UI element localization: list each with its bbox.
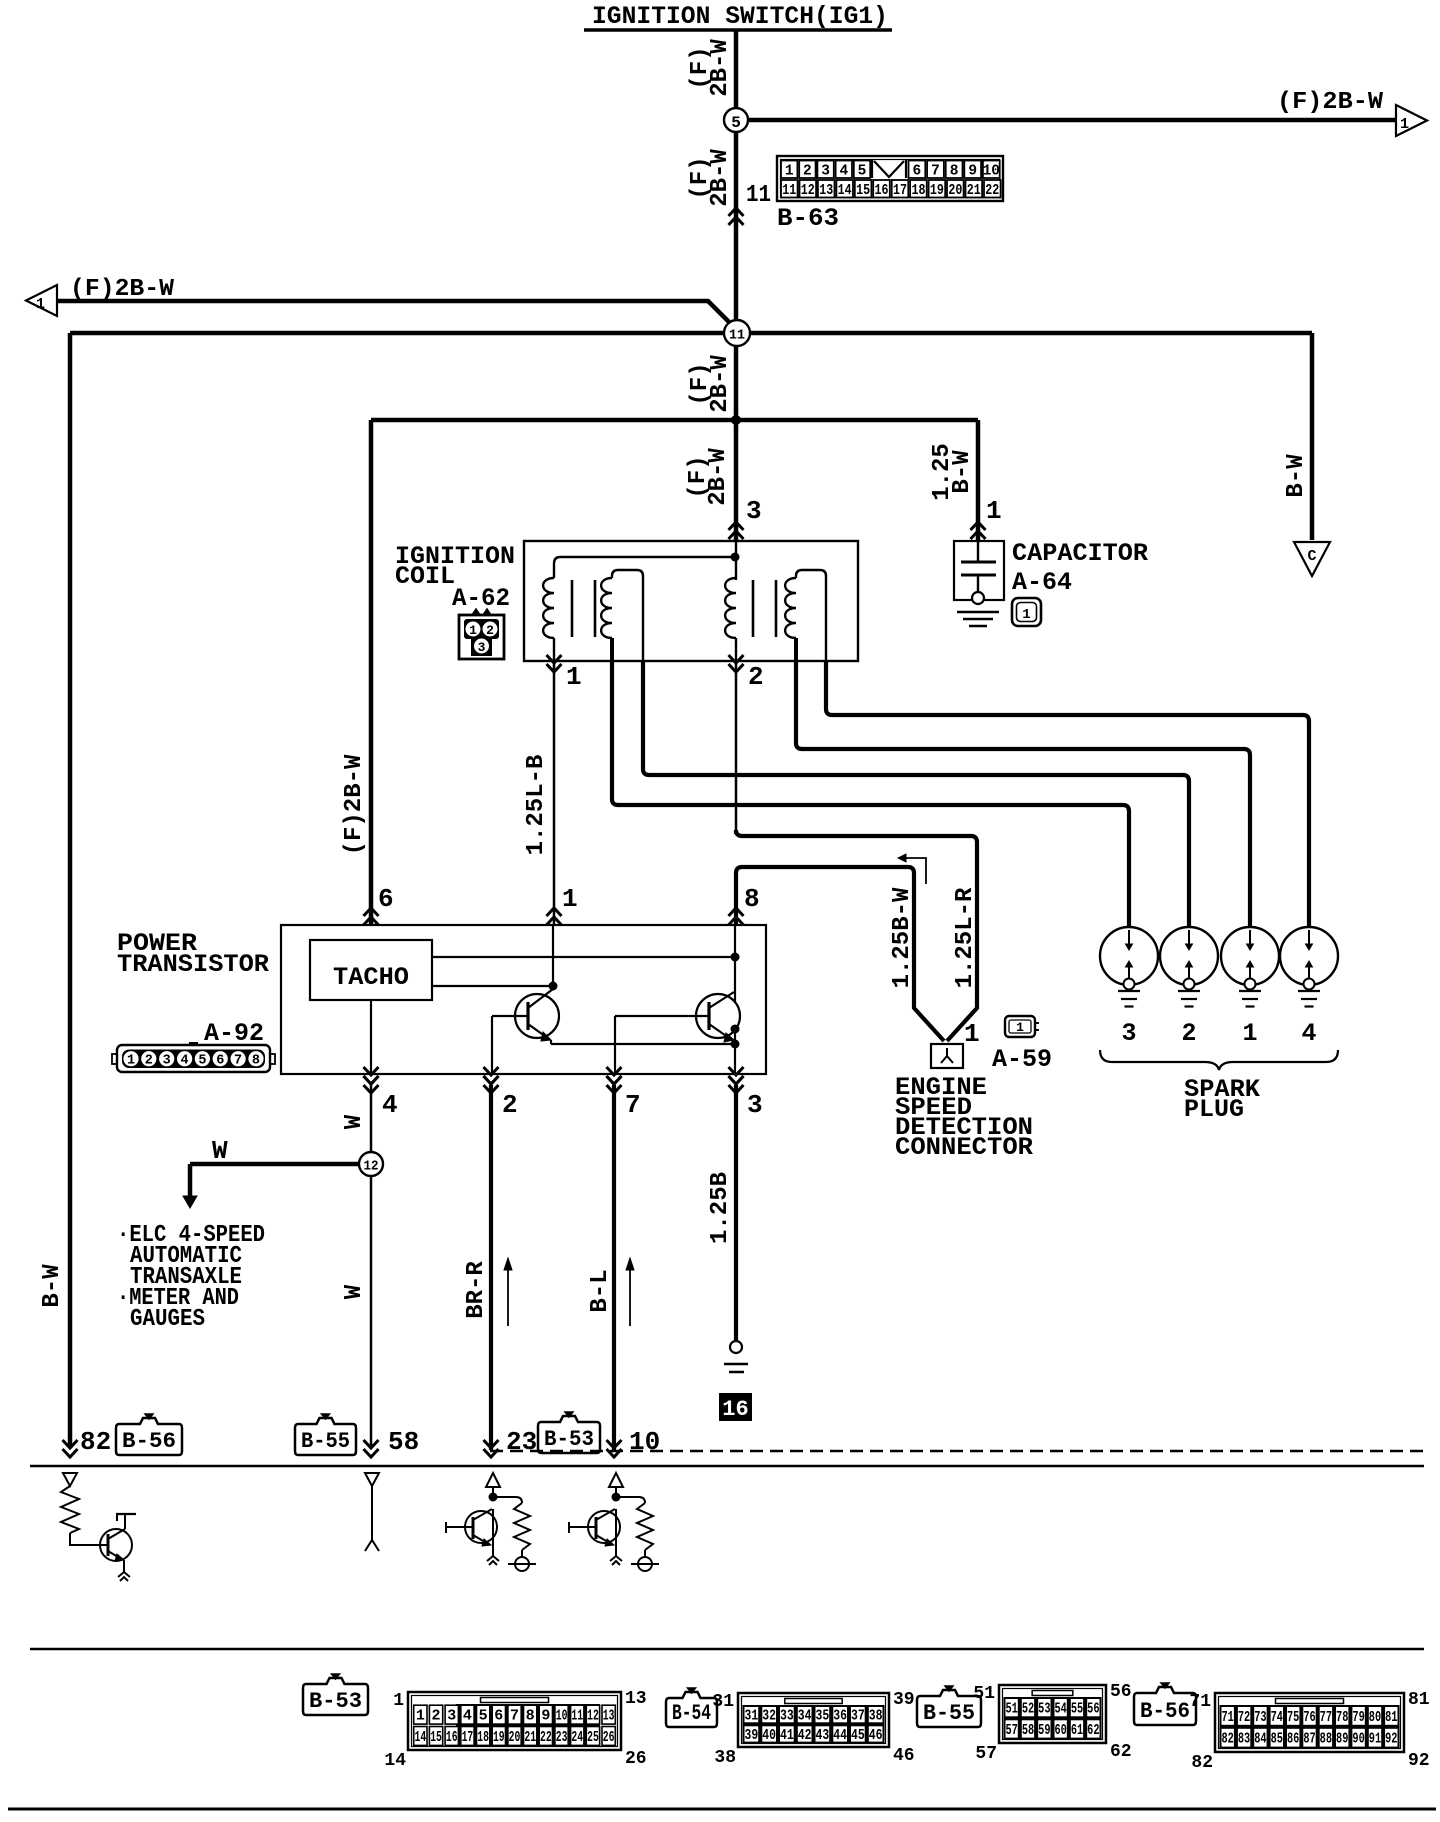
svg-text:16: 16: [446, 1730, 458, 1746]
svg-text:10: 10: [556, 1709, 568, 1725]
wire 2B-W horizontal junction to coil and capacitor branches: [371, 418, 978, 423]
label B-L: [587, 1269, 614, 1312]
internal wire pin 1 down: [552, 925, 554, 986]
svg-text:54: 54: [1055, 1702, 1068, 1718]
ground rail line: [30, 1465, 1424, 1468]
svg-text:A-64: A-64: [1012, 568, 1072, 597]
svg-text:21: 21: [967, 183, 981, 199]
wire Q1 emitter to pin3 net: [550, 1040, 552, 1044]
ground point 16 marker: [719, 1393, 752, 1422]
arrow out of power transistor pin 3: [729, 1076, 744, 1084]
svg-text:71: 71: [1189, 1692, 1211, 1712]
wire W node12 to terminal 58: [370, 1176, 373, 1448]
svg-text:19: 19: [493, 1730, 505, 1746]
svg-text:56: 56: [1087, 1702, 1099, 1718]
wire 2B-W node11 down to junction: [734, 346, 739, 420]
svg-text:1: 1: [562, 884, 578, 914]
wire coil secondary A left to spark plug 3: [612, 661, 1129, 932]
direction arrow near 1.25B-W: [898, 854, 926, 884]
svg-text:B-53: B-53: [544, 1427, 594, 1452]
svg-text:B-W: B-W: [1283, 454, 1310, 498]
svg-text:2: 2: [145, 1054, 153, 1069]
wire coil secondary B left to spark plug 1: [796, 661, 1250, 932]
svg-text:58: 58: [1022, 1723, 1034, 1739]
svg-text:5: 5: [198, 1054, 206, 1069]
svg-text:B-55: B-55: [301, 1429, 350, 1454]
label POWER TRANSISTOR: [117, 929, 269, 979]
svg-text:18: 18: [911, 183, 925, 199]
svg-text:8: 8: [744, 884, 760, 914]
svg-text:IGNITION SWITCH(IG1): IGNITION SWITCH(IG1): [592, 2, 888, 31]
svg-text:51: 51: [973, 1684, 995, 1704]
svg-text:79: 79: [1352, 1710, 1364, 1726]
arrow into power transistor pin 6: [364, 908, 379, 916]
label W lower: [341, 1284, 368, 1299]
connector B-54 16-pin: [738, 1693, 889, 1747]
ignition coil unit B primary winding: [725, 578, 736, 661]
svg-text:16: 16: [875, 183, 889, 199]
label SPARK PLUG: [1184, 1075, 1260, 1124]
svg-text:1: 1: [964, 1019, 980, 1049]
svg-text:89: 89: [1336, 1732, 1348, 1748]
connector icon 1 of A-64: [1012, 598, 1041, 626]
svg-text:83: 83: [1238, 1732, 1250, 1748]
spark plug 2: [1160, 927, 1218, 1007]
arrow at terminal 82: [63, 1449, 78, 1457]
node 12 splice: [359, 1152, 383, 1176]
svg-text:78: 78: [1336, 1710, 1348, 1726]
wire 2B-W node5 down to node 11 through connector B-63 pin 11: [734, 132, 739, 321]
connector tag B-55 bottom: [917, 1690, 981, 1727]
svg-text:21: 21: [524, 1730, 536, 1746]
arrow out of power transistor pin 4: [364, 1076, 379, 1084]
svg-text:1: 1: [127, 1054, 135, 1069]
svg-text:6: 6: [216, 1054, 224, 1069]
svg-text:3: 3: [163, 1054, 171, 1069]
svg-text:3: 3: [747, 1090, 763, 1120]
wire B-W horizontal bus through node 11: [70, 331, 1312, 336]
svg-text:CONNECTOR: CONNECTOR: [895, 1133, 1033, 1162]
svg-text:56: 56: [1110, 1682, 1132, 1702]
svg-text:5: 5: [731, 114, 741, 132]
svg-text:34: 34: [798, 1709, 812, 1725]
svg-text:6: 6: [378, 884, 394, 914]
svg-text:43: 43: [816, 1728, 830, 1744]
connector tag B-54 bottom: [666, 1692, 717, 1727]
svg-text:2B-W: 2B-W: [707, 355, 734, 413]
label ELC 4-SPEED AUTOMATIC TRANSAXLE / METER AND GAUGES: [117, 1222, 265, 1333]
arrow at terminal 58: [364, 1449, 379, 1457]
ignition coil unit A secondary winding: [601, 570, 643, 661]
wire B-W right vertical down to ground C: [1310, 333, 1315, 540]
svg-text:87: 87: [1303, 1732, 1315, 1748]
label 1.25B: [707, 1172, 734, 1244]
connector B-53 26-pin: [408, 1692, 621, 1750]
svg-text:46: 46: [893, 1746, 915, 1766]
svg-text:3: 3: [478, 640, 486, 655]
wire 2B-W down to ignition coil pin 3: [734, 420, 739, 540]
direction arrow B-L: [626, 1258, 634, 1326]
svg-text:W: W: [341, 1114, 368, 1129]
svg-text:23: 23: [556, 1730, 568, 1746]
svg-text:W: W: [341, 1284, 368, 1299]
bottom border line: [8, 1808, 1436, 1811]
internal wire TACHO to pin 3 net: [432, 956, 735, 958]
label W upper: [341, 1114, 368, 1129]
svg-text:22: 22: [985, 183, 999, 199]
svg-text:32: 32: [762, 1709, 776, 1725]
svg-text:7: 7: [625, 1090, 641, 1120]
connector tag B-56 bottom: [1134, 1687, 1196, 1725]
arrow into connector B-63: [729, 208, 744, 216]
pull resistor to ground circle: [616, 1497, 659, 1571]
svg-text:2B-W: 2B-W: [707, 149, 734, 207]
svg-text:12: 12: [364, 1160, 379, 1175]
label 1.25B-W: [889, 887, 916, 988]
coil internal feed wire: [554, 541, 736, 580]
svg-text:B-56: B-56: [1140, 1699, 1190, 1724]
terminal 58 load: open wire: [365, 1473, 379, 1551]
svg-text:PLUG: PLUG: [1184, 1095, 1244, 1124]
svg-text:13: 13: [625, 1689, 647, 1709]
svg-text:4: 4: [382, 1090, 398, 1120]
svg-text:TRANSISTOR: TRANSISTOR: [117, 950, 269, 979]
svg-text:2: 2: [748, 662, 764, 692]
connector A-92 8-pin: [112, 1042, 275, 1072]
junction dot: [612, 1493, 621, 1502]
svg-text:42: 42: [798, 1728, 812, 1744]
internal wire TACHO to pin 4: [370, 1000, 372, 1074]
svg-text:61: 61: [1071, 1723, 1084, 1739]
svg-text:85: 85: [1271, 1732, 1283, 1748]
svg-text:77: 77: [1320, 1710, 1332, 1726]
transistor Q1 of power transistor: [492, 989, 559, 1074]
arrow at terminal 10: [607, 1449, 622, 1457]
svg-text:12: 12: [801, 183, 815, 199]
junction dot pin1 net: [549, 982, 558, 991]
wire 2B-W from left arrow to node 11: [57, 301, 734, 327]
svg-text:31: 31: [712, 1692, 734, 1712]
label 1.25L-R: [952, 887, 979, 988]
junction dot emitter net: [731, 1040, 740, 1049]
svg-text:81: 81: [1408, 1690, 1430, 1710]
svg-text:A-59: A-59: [992, 1045, 1052, 1074]
label B-W right: [1283, 454, 1310, 498]
svg-text:25: 25: [587, 1730, 599, 1746]
svg-text:4: 4: [463, 1709, 472, 1725]
svg-text:B-56: B-56: [122, 1429, 176, 1454]
svg-text:7: 7: [510, 1709, 519, 1725]
svg-text:44: 44: [833, 1728, 847, 1744]
svg-text:14: 14: [384, 1751, 406, 1771]
wire B-L pin7 down to terminal 10: [612, 1085, 616, 1450]
svg-text:6: 6: [494, 1709, 503, 1725]
transistor Q2 of power transistor: [615, 992, 740, 1074]
terminal 82 load: resistor: [61, 1486, 100, 1545]
svg-text:92: 92: [1408, 1751, 1430, 1771]
svg-text:2: 2: [432, 1709, 441, 1725]
svg-text:6: 6: [913, 164, 922, 180]
svg-text:52: 52: [1022, 1702, 1034, 1718]
node IGNITION SWITCH (IG1) power source label: [584, 2, 892, 31]
svg-text:10: 10: [983, 164, 1000, 180]
junction dot: [489, 1493, 498, 1502]
internal wire pin 8 to pin 3: [734, 925, 736, 1074]
label B-W left: [39, 1264, 66, 1308]
transistor to ground: [569, 1509, 622, 1565]
svg-text:84: 84: [1254, 1732, 1267, 1748]
svg-text:BR-R: BR-R: [463, 1261, 490, 1319]
svg-text:55: 55: [1071, 1702, 1083, 1718]
svg-text:39: 39: [745, 1728, 759, 1744]
svg-text:51: 51: [1006, 1702, 1019, 1718]
svg-text:3: 3: [447, 1709, 456, 1725]
connector tag B-56 mid: [116, 1418, 182, 1455]
svg-text:3: 3: [746, 496, 762, 526]
svg-text:76: 76: [1303, 1710, 1315, 1726]
connector tag B-55 mid: [295, 1418, 356, 1455]
svg-text:59: 59: [1038, 1723, 1050, 1739]
label (F)2B-W above pin 6: [341, 754, 368, 855]
svg-text:17: 17: [893, 183, 907, 199]
svg-text:A-92: A-92: [204, 1019, 264, 1048]
svg-text:1: 1: [1022, 607, 1030, 623]
terminal 82 load: triangle: [63, 1473, 77, 1486]
svg-text:20: 20: [948, 183, 962, 199]
ground under capacitor: [957, 612, 999, 626]
power transistor unit box: [281, 925, 766, 1074]
svg-text:1: 1: [986, 496, 1002, 526]
junction dot inside coil: [731, 553, 740, 562]
svg-text:B-L: B-L: [587, 1269, 614, 1312]
svg-text:2B-W: 2B-W: [705, 448, 732, 506]
svg-text:31: 31: [745, 1709, 759, 1725]
svg-text:1: 1: [416, 1709, 425, 1725]
svg-text:38: 38: [714, 1748, 736, 1768]
arrow out of power transistor pin 2: [484, 1076, 499, 1084]
label (F)2B-W segment above B-63: [687, 149, 734, 207]
connector icon 1 of A-59: [1005, 1016, 1039, 1037]
ignition coil unit B core: [753, 580, 776, 637]
dashed harness line: [490, 1450, 1428, 1452]
label 1.25 B-W capacitor feed: [929, 443, 976, 501]
node 5 splice: [724, 108, 748, 132]
svg-text:1: 1: [1242, 1019, 1257, 1048]
svg-text:80: 80: [1369, 1710, 1381, 1726]
label ENGINE SPEED DETECTION CONNECTOR: [895, 1073, 1033, 1162]
svg-text:24: 24: [571, 1730, 583, 1746]
terminal 10 load: triangle up: [609, 1473, 623, 1494]
wire 1.25B-W power transistor pin 8 to engine speed connector: [736, 867, 944, 1041]
svg-text:35: 35: [816, 1709, 830, 1725]
connector B-55 12-pin: [999, 1685, 1106, 1743]
svg-text:1: 1: [36, 296, 45, 313]
wire 2B-W to right fuse arrow: [748, 118, 1396, 123]
svg-text:39: 39: [893, 1690, 915, 1710]
svg-text:1: 1: [1400, 116, 1409, 133]
svg-text:4: 4: [180, 1054, 188, 1069]
svg-text:10: 10: [629, 1427, 660, 1457]
svg-text:B-54: B-54: [672, 1701, 711, 1726]
svg-text:W: W: [212, 1136, 228, 1166]
svg-text:GAUGES: GAUGES: [130, 1306, 205, 1333]
svg-text:(F)2B-W: (F)2B-W: [1277, 89, 1384, 116]
svg-text:C: C: [1307, 548, 1316, 565]
svg-text:53: 53: [1038, 1702, 1050, 1718]
svg-text:1: 1: [469, 623, 477, 638]
svg-text:82: 82: [1222, 1732, 1234, 1748]
svg-text:17: 17: [462, 1730, 474, 1746]
svg-text:11: 11: [782, 183, 796, 199]
label (F)2B-W below node 11: [687, 355, 734, 413]
svg-text:13: 13: [603, 1709, 615, 1725]
wire B-W left vertical down to terminal 82: [68, 333, 73, 1448]
svg-text:B-W: B-W: [949, 450, 976, 494]
junction dot at coil feed: [731, 415, 741, 425]
arrow out of coil pin 2: [729, 664, 744, 672]
ignition coil unit B secondary winding: [785, 570, 826, 661]
svg-text:B-53: B-53: [309, 1689, 362, 1714]
svg-text:9: 9: [968, 164, 977, 180]
connector tag B-53 mid: [538, 1416, 600, 1453]
svg-text:B-55: B-55: [923, 1701, 975, 1726]
arrow connector 1 right (F)2B-W: [1396, 105, 1427, 136]
svg-text:36: 36: [833, 1709, 847, 1725]
svg-text:82: 82: [1191, 1753, 1213, 1773]
label (F)2B-W vertical top segment: [687, 39, 734, 97]
TACHO block: [310, 940, 432, 1000]
svg-text:45: 45: [851, 1728, 865, 1744]
svg-text:86: 86: [1287, 1732, 1299, 1748]
svg-text:73: 73: [1254, 1710, 1266, 1726]
svg-text:12: 12: [587, 1709, 599, 1725]
junction dot Q2 emitter: [731, 1025, 740, 1034]
svg-text:1.25B: 1.25B: [707, 1172, 734, 1244]
svg-text:75: 75: [1287, 1710, 1299, 1726]
svg-text:1: 1: [1016, 1020, 1024, 1035]
spark plug 1: [1221, 927, 1279, 1007]
arrow connector 1 left (F)2B-W: [26, 285, 57, 316]
svg-text:46: 46: [869, 1728, 883, 1744]
svg-text:20: 20: [509, 1730, 521, 1746]
svg-text:B-W: B-W: [39, 1264, 66, 1308]
arrow into power transistor pin 8: [729, 908, 744, 916]
svg-text:1: 1: [393, 1691, 404, 1711]
svg-text:33: 33: [780, 1709, 794, 1725]
connector B-63 22-pin: [777, 156, 1003, 201]
arrow into coil pin 3: [729, 522, 744, 530]
svg-text:60: 60: [1055, 1723, 1067, 1739]
arrow into power transistor pin 1: [547, 908, 562, 916]
svg-text:23: 23: [506, 1427, 537, 1457]
connector tag B-53 bottom: [303, 1678, 368, 1715]
svg-text:92: 92: [1385, 1732, 1397, 1748]
svg-text:7: 7: [234, 1054, 242, 1069]
svg-text:19: 19: [930, 183, 944, 199]
svg-text:26: 26: [603, 1730, 615, 1746]
ground terminal of 1.25B: [724, 1341, 748, 1372]
svg-text:58: 58: [388, 1427, 419, 1457]
wire 1.25L-B coil pin1 to power transistor pin 1: [553, 661, 556, 924]
svg-text:14: 14: [838, 183, 852, 199]
ground C arrow: [1294, 542, 1330, 576]
svg-text:3: 3: [821, 164, 830, 180]
svg-text:CAPACITOR: CAPACITOR: [1012, 539, 1148, 568]
direction arrow BR-R: [504, 1258, 512, 1326]
ignition coil A-62 box: [524, 541, 858, 661]
svg-text:TACHO: TACHO: [333, 963, 409, 992]
svg-text:2: 2: [1181, 1019, 1196, 1048]
wire 1.25B pin3 down to ground 16: [734, 1085, 738, 1341]
arrow into capacitor pin 1: [971, 522, 986, 530]
connector B-56 22-pin: [1215, 1693, 1404, 1752]
svg-text:4: 4: [839, 164, 848, 180]
wire coil secondary B right to spark plug 4: [826, 661, 1309, 932]
wire (F)2B-W junction down to power transistor pin 6: [369, 420, 374, 924]
svg-text:8: 8: [950, 164, 959, 180]
svg-text:82: 82: [80, 1427, 111, 1457]
svg-text:14: 14: [415, 1730, 427, 1746]
svg-text:1.25B-W: 1.25B-W: [889, 887, 916, 988]
brace for spark plugs: [1100, 1050, 1338, 1070]
svg-text:22: 22: [540, 1730, 552, 1746]
terminal 82 load: transistor: [100, 1514, 136, 1581]
connector icon A-62 3-pin: [459, 609, 504, 659]
svg-text:15: 15: [430, 1730, 442, 1746]
separator line above connector list: [30, 1648, 1424, 1651]
wire W branch to ELC transaxle: [183, 1164, 359, 1208]
svg-text:2B-W: 2B-W: [707, 39, 734, 97]
svg-text:(F)2B-W: (F)2B-W: [341, 754, 368, 855]
svg-text:74: 74: [1271, 1710, 1284, 1726]
svg-text:4: 4: [1301, 1019, 1316, 1048]
spark plug 3: [1100, 927, 1158, 1007]
svg-text:71: 71: [1222, 1710, 1235, 1726]
svg-text:1.25L-R: 1.25L-R: [952, 887, 979, 988]
svg-text:11: 11: [729, 328, 745, 344]
node 11 splice: [724, 320, 750, 346]
wire BR-R pin2 down to terminal 23: [489, 1085, 493, 1450]
internal wire TACHO to pin 1 net: [432, 985, 553, 987]
svg-text:11: 11: [746, 182, 771, 209]
wire 1.25B-W down to capacitor: [976, 420, 981, 540]
svg-text:88: 88: [1320, 1732, 1332, 1748]
junction dot TACHO line on pin3 net: [731, 953, 740, 962]
svg-text:7: 7: [931, 164, 940, 180]
ignition coil unit A core: [572, 580, 595, 637]
svg-text:16: 16: [722, 1397, 748, 1422]
arrow out of coil pin 1: [547, 664, 562, 672]
svg-text:2: 2: [486, 623, 494, 638]
svg-text:26: 26: [625, 1749, 647, 1769]
svg-text:8: 8: [252, 1054, 260, 1069]
svg-text:COIL: COIL: [395, 562, 455, 591]
svg-text:91: 91: [1369, 1732, 1382, 1748]
ignition coil unit A primary winding: [543, 578, 554, 661]
spark plug 4: [1280, 927, 1338, 1007]
svg-text:2: 2: [502, 1090, 518, 1120]
svg-text:15: 15: [856, 183, 870, 199]
svg-text:90: 90: [1352, 1732, 1364, 1748]
svg-text:5: 5: [858, 164, 867, 180]
terminal 23 load: triangle up: [486, 1473, 500, 1494]
wire 1.25L-R coil pin2 to engine speed connector: [736, 661, 977, 1041]
svg-text:57: 57: [975, 1744, 997, 1764]
svg-text:38: 38: [869, 1709, 883, 1725]
engine speed detection connector A-59 terminal: [931, 1044, 963, 1068]
svg-text:62: 62: [1110, 1742, 1132, 1762]
svg-text:B-63: B-63: [777, 204, 839, 233]
